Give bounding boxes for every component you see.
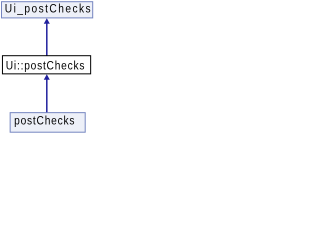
node postChecks (derived class box) [10, 113, 85, 133]
node Ui::postChecks (middle class box) [2, 56, 90, 74]
inheritance arrow: postChecks to Ui::postChecks [44, 75, 49, 113]
svg-text:Ui::postChecks: Ui::postChecks [6, 60, 85, 73]
inheritance arrow: Ui::postChecks to Ui_postChecks [44, 19, 49, 56]
node Ui_postChecks (base class box) [2, 2, 93, 18]
svg-text:postChecks: postChecks [14, 115, 75, 128]
